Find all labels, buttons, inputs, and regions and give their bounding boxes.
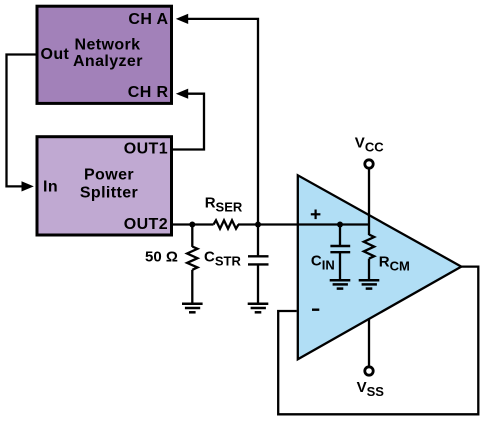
network analyzer box — [37, 6, 172, 103]
svg-text:OUT1: OUT1 — [124, 140, 168, 157]
wire to 50 ohm resistor — [191, 225, 193, 247]
resistor R_CM — [364, 235, 374, 259]
ground under 50 ohm — [182, 304, 203, 313]
ground under R_CM — [359, 280, 380, 288]
svg-text:Power: Power — [84, 167, 134, 184]
wire node to C_IN — [339, 225, 341, 247]
svg-text:RSER: RSER — [205, 195, 243, 215]
wire Out to In — [7, 55, 36, 187]
ground under C_STR — [248, 304, 269, 313]
node at C_IN — [337, 222, 343, 228]
wire node to C_STR — [257, 225, 259, 257]
capacitor C_STR — [248, 256, 269, 264]
wire OUT2 to R_SER — [173, 223, 214, 225]
resistor 50 ohm — [187, 247, 197, 270]
svg-text:CH A: CH A — [128, 11, 168, 28]
wire node to CH A — [187, 19, 258, 225]
svg-text:VSS: VSS — [357, 379, 385, 399]
svg-text:OUT2: OUT2 — [124, 216, 168, 233]
svg-text:CH R: CH R — [128, 84, 169, 101]
feedback wire output to minus input — [278, 267, 478, 415]
svg-text:Out: Out — [41, 46, 70, 63]
ground under C_IN — [330, 280, 351, 288]
wire C_STR to ground — [257, 264, 259, 303]
wire V_SS supply — [368, 318, 370, 366]
resistor R_CM wire top — [368, 225, 370, 236]
arrow into CH A — [176, 14, 188, 24]
node at OUT2 — [189, 222, 195, 228]
wire V_CC supply — [368, 169, 370, 225]
svg-text:50 Ω: 50 Ω — [145, 248, 178, 265]
wire OUT1 to CH R — [173, 94, 205, 150]
terminal V_SS — [365, 367, 373, 375]
plus input marker — [311, 210, 321, 220]
resistor R_SER — [214, 220, 239, 228]
power splitter box — [37, 137, 172, 235]
svg-text:Network: Network — [75, 36, 141, 53]
minus input marker — [312, 309, 319, 311]
arrow into In — [22, 181, 34, 191]
node at C_STR — [255, 222, 261, 228]
svg-text:Analyzer: Analyzer — [73, 53, 143, 70]
svg-text:In: In — [43, 179, 58, 196]
wire R_CM to ground — [368, 259, 370, 281]
wire R_SER to op-amp — [238, 223, 369, 225]
wire C_IN to ground — [339, 252, 341, 280]
svg-text:Splitter: Splitter — [80, 184, 138, 201]
terminal V_CC — [365, 160, 373, 168]
wire 50 ohm to ground — [191, 270, 193, 304]
svg-text:CSTR: CSTR — [204, 248, 241, 268]
svg-text:VCC: VCC — [355, 134, 384, 154]
arrow into CH R — [176, 89, 188, 99]
op-amp U1 — [298, 175, 462, 359]
capacitor C_IN — [330, 246, 350, 252]
